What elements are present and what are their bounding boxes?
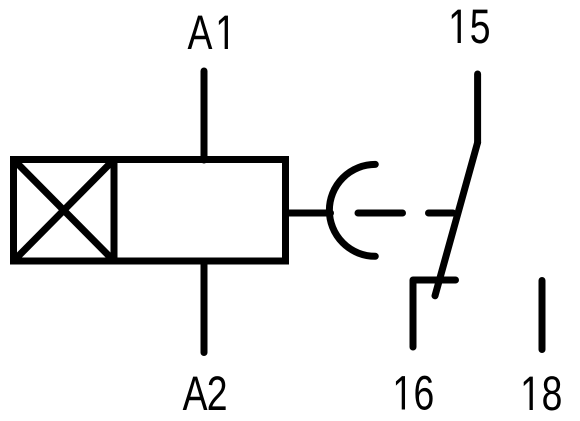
- terminal label A1: [188, 16, 228, 49]
- terminal label 16: [396, 376, 433, 410]
- wire 16 lead: [413, 280, 456, 347]
- coil body rectangle: [14, 160, 286, 262]
- wire 18 lead: [539, 281, 546, 350]
- wire coil to delay symbol: [287, 210, 331, 217]
- coil X diagonal 2: [14, 160, 115, 262]
- dashed link segment 2: [429, 210, 454, 217]
- terminal label A2: [183, 376, 226, 410]
- coil divider: [111, 160, 118, 262]
- wire 15 lead: [474, 74, 481, 143]
- wire A2 lead: [201, 262, 208, 353]
- coil X diagonal 1: [14, 160, 115, 262]
- terminal label 18: [524, 376, 561, 410]
- contact moving blade 15-16/18: [435, 143, 478, 296]
- terminal label 15: [452, 10, 489, 44]
- on-delay symbol semicircle: [329, 164, 375, 256]
- dashed link segment 1: [358, 210, 403, 217]
- wire A1 lead: [201, 71, 208, 160]
